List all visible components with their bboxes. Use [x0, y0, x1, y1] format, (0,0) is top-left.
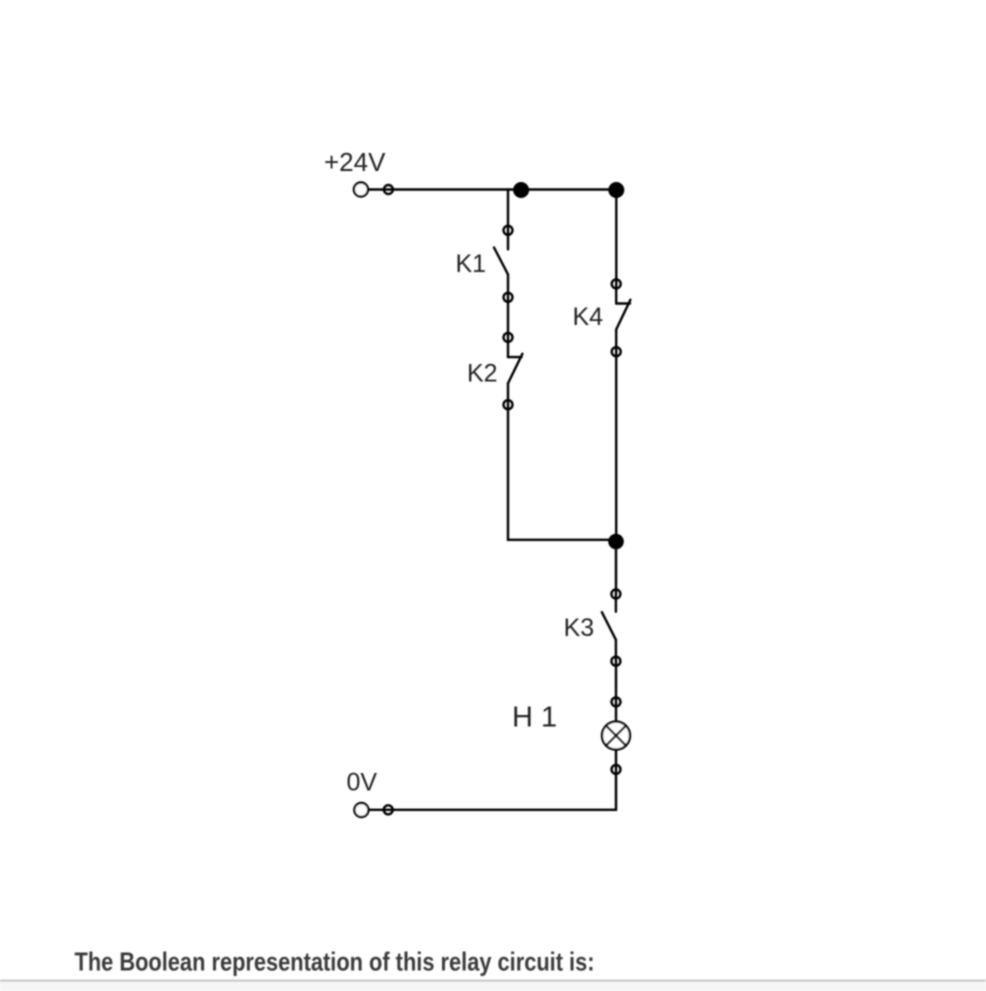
svg-text:K2: K2: [467, 360, 498, 388]
wire +24V rail horizontal: [368, 188, 616, 190]
wire junction C to K3: [615, 542, 617, 595]
terminal +24V: [354, 183, 393, 197]
contact K3 (NO make contact): [602, 590, 621, 666]
label 0V: [347, 769, 378, 797]
contact K4 (NC break contact): [612, 279, 631, 356]
footer strip: [0, 982, 986, 991]
label K1: [456, 250, 487, 278]
wire right branch from K4 to junction C: [615, 352, 617, 542]
terminal 0V: [354, 803, 392, 817]
wire left branch lower with corner to junction C: [508, 405, 616, 540]
divider rule: [0, 980, 986, 982]
label K3: [564, 614, 595, 642]
label K2: [467, 360, 498, 388]
svg-text:K3: K3: [564, 614, 595, 642]
wire right branch from rail to K4: [615, 190, 617, 284]
label +24V: [324, 147, 386, 177]
svg-text:K1: K1: [456, 250, 487, 278]
node junction A: [513, 182, 529, 198]
heading: question text: [75, 946, 595, 976]
svg-text:+24V: +24V: [324, 147, 386, 177]
svg-text:K4: K4: [573, 303, 604, 331]
wire from lamp down and left to 0V terminal: [369, 769, 617, 809]
label K4: [573, 303, 604, 331]
wire left branch from rail to K1: [507, 190, 509, 231]
contact K1 (NO make contact): [494, 226, 513, 302]
node junction B: [608, 182, 624, 198]
node junction C: [608, 534, 624, 550]
wire between K1 and K2: [507, 297, 509, 337]
label H 1: [512, 702, 557, 734]
svg-text:The Boolean representation of: The Boolean representation of this relay…: [75, 946, 595, 976]
contact K2 (NC break contact): [504, 333, 523, 409]
lamp H1 (indicator light): [602, 697, 630, 774]
wire between K3 and lamp H1: [615, 661, 617, 702]
svg-text:H 1: H 1: [512, 702, 557, 734]
svg-text:0V: 0V: [347, 769, 378, 797]
